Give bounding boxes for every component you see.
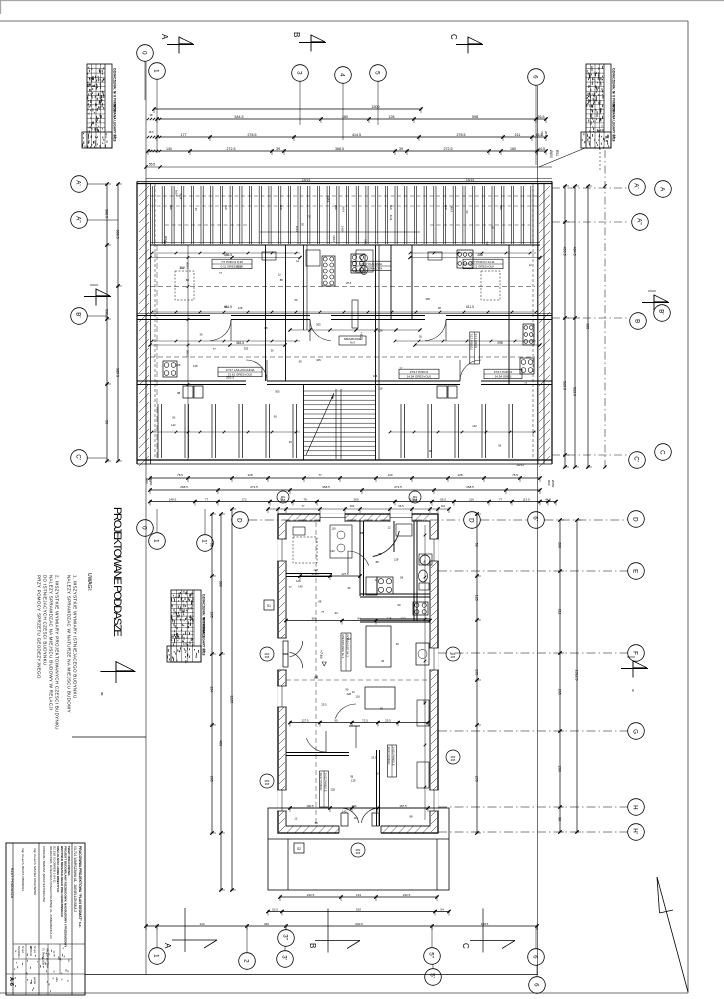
- svg-text:140: 140: [298, 585, 303, 589]
- svg-text:232.5: 232.5: [403, 893, 411, 897]
- svg-text:St-WA/14: St-WA/14: [29, 946, 32, 957]
- svg-text:414.5: 414.5: [352, 133, 361, 137]
- svg-text:6: 6: [532, 955, 539, 959]
- svg-text:14.54 GRES: 14.54 GRES: [495, 374, 512, 378]
- svg-text:211: 211: [515, 133, 521, 137]
- svg-text:12: 12: [388, 525, 391, 529]
- svg-text:177: 177: [181, 133, 187, 137]
- svg-text:A: A: [160, 34, 169, 40]
- svg-text:Ø15: Ø15: [451, 759, 456, 762]
- svg-text:R01: R01: [555, 150, 559, 156]
- svg-text:=: =: [98, 692, 104, 696]
- svg-text:9x14: 9x14: [178, 194, 182, 200]
- svg-text:295: 295: [475, 776, 479, 782]
- svg-text:14/14: 14/14: [516, 463, 524, 467]
- svg-text:525.5: 525.5: [226, 376, 234, 380]
- svg-text:A-6: A-6: [8, 977, 14, 986]
- svg-text:9x14: 9x14: [175, 190, 179, 196]
- svg-text:56: 56: [274, 414, 277, 418]
- svg-text:4: 4: [339, 73, 346, 77]
- svg-text:363.5: 363.5: [236, 341, 244, 345]
- svg-text:2: 2: [243, 959, 250, 963]
- svg-text:128: 128: [193, 364, 198, 368]
- svg-text:A': A': [633, 183, 640, 188]
- svg-text:14.54 GRES+OLK: 14.54 GRES+OLK: [407, 374, 432, 378]
- svg-text:90: 90: [299, 359, 302, 363]
- svg-text:A': A': [75, 180, 82, 185]
- svg-text:148.5: 148.5: [169, 497, 177, 501]
- svg-text:17/17 LAZ+KUCHNIA: 17/17 LAZ+KUCHNIA: [225, 368, 254, 372]
- svg-text:140: 140: [352, 804, 357, 808]
- svg-text:56: 56: [315, 675, 318, 679]
- svg-text:25.5: 25.5: [346, 281, 352, 285]
- svg-text:288: 288: [477, 253, 483, 257]
- svg-text:484.5: 484.5: [573, 247, 577, 256]
- svg-text:88: 88: [318, 600, 321, 604]
- svg-text:WARSZAWA, DZIELNICA PRAGA POLU: WARSZAWA, DZIELNICA PRAGA POLUDNIE UL. Z…: [49, 846, 53, 939]
- svg-text:180: 180: [510, 147, 516, 151]
- svg-text:116: 116: [441, 504, 446, 508]
- svg-text:0: 0: [141, 51, 148, 55]
- svg-text:116: 116: [373, 374, 378, 378]
- svg-text:Ø15: Ø15: [265, 656, 270, 659]
- svg-text:A: A: [163, 943, 172, 949]
- svg-text:NALEZY SPRAWDZAC W NATURZE NA: NALEZY SPRAWDZAC W NATURZE NA MIEJSCU BU…: [67, 575, 72, 713]
- svg-text:200: 200: [558, 542, 562, 548]
- svg-text:187.5: 187.5: [399, 804, 407, 808]
- svg-text:36: 36: [381, 659, 384, 663]
- svg-text:211: 211: [558, 609, 562, 615]
- svg-text:PRACOWNIA PROJEKTOWA "PLAN GEO: PRACOWNIA PROJEKTOWA "PLAN GEOMAT" s.c.: [78, 846, 82, 928]
- svg-text:79: 79: [303, 497, 307, 501]
- svg-text:36: 36: [347, 586, 350, 590]
- svg-text:305: 305: [316, 323, 321, 327]
- svg-text:598: 598: [472, 115, 478, 119]
- svg-text:190.5: 190.5: [306, 804, 314, 808]
- svg-text:586.5: 586.5: [224, 253, 232, 257]
- svg-text:1312.5: 1312.5: [575, 670, 579, 681]
- svg-text:14: 14: [114, 135, 118, 139]
- svg-text:56: 56: [225, 305, 228, 309]
- svg-text:Nr upr.: Nr upr.: [21, 946, 24, 954]
- svg-text:0: 0: [141, 526, 148, 530]
- svg-text:12: 12: [529, 263, 532, 267]
- svg-text:16.02 PANELE: 16.02 PANELE: [324, 773, 328, 792]
- svg-text:5/7 POKOJ 14.11: 5/7 POKOJ 14.11: [471, 260, 495, 264]
- svg-text:12: 12: [375, 578, 378, 582]
- svg-text:mgr inz.arch. BEATA OBROCKA: mgr inz.arch. BEATA OBROCKA: [21, 848, 25, 891]
- svg-text:260: 260: [350, 504, 355, 508]
- svg-text:520: 520: [356, 907, 361, 911]
- svg-text:75.5: 75.5: [512, 473, 518, 477]
- svg-text:144: 144: [199, 922, 204, 926]
- svg-text:26.5: 26.5: [538, 115, 545, 119]
- svg-text:58: 58: [350, 775, 353, 779]
- svg-text:D: D: [632, 517, 639, 522]
- svg-text:14/14: 14/14: [326, 196, 330, 203]
- svg-text:6': 6': [532, 516, 539, 521]
- svg-text:1: 1: [153, 954, 160, 958]
- svg-text:BUDYNKU MIESZKALNEGO WIELORODZ: BUDYNKU MIESZKALNEGO WIELORODZINNEGO: [60, 846, 64, 918]
- svg-text:30/17 POKOJ: 30/17 POKOJ: [319, 773, 323, 791]
- svg-text:A": A": [75, 216, 82, 222]
- svg-text:128: 128: [176, 363, 181, 367]
- svg-text:A": A": [636, 218, 643, 224]
- svg-text:544.5: 544.5: [235, 115, 244, 119]
- svg-text:116: 116: [331, 527, 336, 531]
- svg-text:116: 116: [378, 387, 383, 391]
- svg-text:77: 77: [302, 504, 305, 508]
- svg-text:9x9: 9x9: [279, 205, 283, 210]
- svg-text:128: 128: [296, 579, 301, 583]
- svg-text:3": 3": [282, 934, 289, 940]
- svg-text:3': 3': [281, 955, 288, 960]
- svg-text:88: 88: [315, 821, 318, 825]
- svg-text:523.5: 523.5: [563, 381, 567, 390]
- svg-text:2. WSZYSTKIE WYMIARY PROJEKTOW: 2. WSZYSTKIE WYMIARY PROJEKTOWANYCH CZES…: [55, 575, 60, 730]
- svg-text:44.5: 44.5: [545, 497, 551, 501]
- svg-text:14/14: 14/14: [341, 226, 345, 233]
- svg-text:R01: R01: [413, 496, 418, 499]
- svg-text:52.5: 52.5: [272, 907, 278, 911]
- svg-text:128: 128: [238, 306, 243, 310]
- svg-text:72.5: 72.5: [362, 718, 368, 722]
- svg-text:D: D: [236, 518, 243, 523]
- svg-text:14/14: 14/14: [450, 206, 454, 213]
- svg-text:MIESZKANIE Nr 4: MIESZKANIE Nr 4: [341, 635, 345, 659]
- svg-text:7/17 POKOJ: 7/17 POKOJ: [470, 334, 474, 351]
- svg-text:9x14: 9x14: [341, 206, 345, 212]
- svg-text:134: 134: [210, 686, 214, 692]
- svg-text:30/17 POKOJ: 30/17 POKOJ: [387, 747, 391, 765]
- svg-text:305: 305: [244, 346, 249, 350]
- svg-text:140: 140: [342, 809, 347, 813]
- svg-text:14/14: 14/14: [302, 178, 310, 182]
- svg-text:77: 77: [213, 347, 216, 351]
- svg-text:1. WSZYSTKIE WYMIARY ISTNIEJAC: 1. WSZYSTKIE WYMIARY ISTNIEJACEGO BUDYNK…: [73, 575, 78, 698]
- svg-text:C': C': [633, 456, 640, 462]
- svg-text:=: =: [629, 689, 635, 692]
- svg-text:205: 205: [210, 612, 214, 618]
- svg-text:9x9: 9x9: [499, 205, 503, 210]
- svg-text:C: C: [461, 943, 470, 949]
- svg-text:116: 116: [347, 637, 352, 641]
- svg-text:36: 36: [396, 642, 399, 646]
- svg-text:podpis: podpis: [33, 977, 36, 985]
- svg-text:5: 5: [374, 71, 381, 75]
- svg-text:608.5: 608.5: [116, 230, 120, 239]
- svg-text:459.5: 459.5: [563, 247, 567, 256]
- svg-text:C': C': [75, 454, 82, 460]
- svg-text:25.5: 25.5: [321, 702, 327, 706]
- svg-text:56: 56: [105, 420, 109, 424]
- svg-text:data: data: [55, 977, 58, 982]
- svg-text:298: 298: [497, 341, 503, 345]
- svg-text:340: 340: [264, 922, 269, 926]
- svg-text:128: 128: [351, 779, 356, 783]
- svg-text:C: C: [449, 34, 458, 40]
- svg-text:1: 1: [153, 69, 160, 73]
- svg-text:27/17 POKOJ: 27/17 POKOJ: [494, 370, 513, 374]
- svg-text:Ø15: Ø15: [356, 852, 361, 855]
- svg-text:205: 205: [210, 776, 214, 782]
- svg-text:128: 128: [457, 473, 462, 477]
- svg-text:585.5: 585.5: [116, 368, 120, 377]
- svg-text:mgr inz.arch. MACIEJ CICHOWSKI: mgr inz.arch. MACIEJ CICHOWSKI: [33, 848, 37, 896]
- svg-text:523.5: 523.5: [573, 387, 577, 396]
- svg-text:77: 77: [499, 497, 503, 501]
- svg-text:14/14: 14/14: [332, 235, 336, 242]
- svg-text:88: 88: [360, 531, 363, 535]
- svg-text:44.5: 44.5: [538, 147, 545, 151]
- svg-text:RZUT PODDASZA: RZUT PODDASZA: [10, 868, 14, 899]
- svg-text:14/14: 14/14: [363, 239, 367, 246]
- svg-text:75.5: 75.5: [177, 473, 183, 477]
- svg-text:6: 6: [533, 983, 540, 987]
- svg-text:14/14: 14/14: [163, 240, 167, 247]
- svg-text:125: 125: [475, 595, 479, 601]
- svg-text:25.5: 25.5: [236, 265, 242, 269]
- svg-text:B: B: [308, 943, 317, 948]
- svg-text:WA/100/14: WA/100/14: [17, 946, 20, 958]
- svg-text:F: F: [632, 651, 639, 655]
- svg-text:27/17 POKOJ: 27/17 POKOJ: [410, 370, 429, 374]
- svg-text:5': 5': [429, 973, 436, 978]
- svg-text:56: 56: [380, 707, 383, 711]
- svg-text:460: 460: [423, 560, 427, 565]
- svg-text:C: C: [659, 450, 666, 455]
- svg-text:77: 77: [219, 271, 222, 275]
- svg-text:368.5: 368.5: [322, 485, 330, 489]
- svg-text:113.5: 113.5: [522, 497, 530, 501]
- svg-text:140: 140: [330, 549, 335, 553]
- svg-text:278.5: 278.5: [248, 133, 257, 137]
- svg-text:380: 380: [423, 700, 427, 705]
- svg-text:127.5: 127.5: [341, 572, 349, 576]
- svg-text:Ø150: Ø150: [549, 150, 553, 158]
- svg-text:380: 380: [219, 581, 223, 587]
- svg-text:Nr upr.: Nr upr.: [33, 946, 36, 954]
- svg-text:77: 77: [399, 367, 402, 371]
- svg-text:Ø15: Ø15: [413, 500, 418, 502]
- svg-text:36: 36: [289, 440, 292, 444]
- svg-text:130: 130: [387, 473, 392, 477]
- svg-text:14: 14: [613, 135, 617, 139]
- svg-text:128: 128: [394, 557, 399, 561]
- svg-text:88: 88: [177, 391, 180, 395]
- svg-text:128: 128: [387, 617, 392, 621]
- svg-text:305: 305: [425, 297, 430, 301]
- svg-text:R03: R03: [145, 478, 149, 484]
- svg-text:268.5: 268.5: [180, 485, 188, 489]
- svg-text:56: 56: [498, 443, 501, 447]
- svg-text:ARCHITEKTURA: ARCHITEKTURA: [46, 948, 50, 968]
- svg-text:7/7 POKOJ 8.26: 7/7 POKOJ 8.26: [221, 260, 243, 264]
- svg-text:90: 90: [335, 611, 338, 615]
- svg-text:140: 140: [166, 147, 172, 151]
- svg-text:9x9: 9x9: [444, 205, 448, 210]
- svg-text:278.5: 278.5: [457, 133, 466, 137]
- svg-text:295: 295: [475, 669, 479, 675]
- svg-text:128: 128: [389, 115, 395, 119]
- svg-text:56.5: 56.5: [440, 497, 446, 501]
- svg-text:36: 36: [200, 333, 203, 337]
- svg-text:St. 5kwiec.13: St. 5kwiec.13: [42, 948, 46, 964]
- svg-text:STADIUM / BRANZA: ARCHITEKTONI: STADIUM / BRANZA: ARCHITEKTONICZNA: [42, 846, 46, 902]
- svg-text:R01: R01: [281, 496, 286, 499]
- svg-text:90: 90: [345, 687, 348, 691]
- svg-text:Ø15: Ø15: [281, 500, 286, 502]
- svg-text:116: 116: [354, 816, 359, 820]
- svg-text:132: 132: [400, 616, 405, 620]
- svg-text:Nr 5: Nr 5: [350, 341, 355, 345]
- svg-text:172: 172: [241, 497, 246, 501]
- svg-text:12: 12: [296, 259, 299, 263]
- svg-text:128: 128: [247, 473, 252, 477]
- svg-text:9x9: 9x9: [334, 205, 338, 210]
- svg-text:160: 160: [342, 115, 348, 119]
- svg-text:90: 90: [398, 603, 401, 607]
- svg-text:94: 94: [357, 616, 361, 620]
- svg-text:14/14: 14/14: [466, 178, 474, 182]
- svg-text:B: B: [634, 319, 641, 323]
- svg-text:460: 460: [219, 740, 223, 746]
- svg-text:172.5: 172.5: [311, 572, 319, 576]
- svg-text:H': H': [632, 828, 639, 834]
- svg-text:56: 56: [210, 543, 214, 547]
- svg-text:128: 128: [378, 328, 383, 332]
- svg-text:88: 88: [376, 560, 379, 564]
- svg-text:25.5: 25.5: [371, 755, 377, 759]
- svg-text:985: 985: [586, 323, 590, 329]
- svg-text:56: 56: [295, 298, 298, 302]
- svg-text:205: 205: [558, 689, 562, 695]
- svg-text:88: 88: [558, 817, 562, 821]
- svg-text:PROJEKTOWANE PODDASZE: PROJEKTOWANE PODDASZE: [111, 507, 123, 636]
- svg-text:+7.60: +7.60: [319, 650, 323, 659]
- svg-text:368.5: 368.5: [335, 147, 344, 151]
- svg-text:142: 142: [171, 423, 176, 427]
- svg-text:MIESZKANIE: MIESZKANIE: [344, 337, 361, 341]
- svg-text:DO ISTNIEJACYCH CZESCI BUDYNKU: DO ISTNIEJACYCH CZESCI BUDYNKU: [43, 575, 48, 666]
- svg-text:NALEZY SPRAWDZAC NA MIEJSCU BU: NALEZY SPRAWDZAC NA MIEJSCU BUDOWY W REL…: [49, 575, 54, 710]
- svg-text:268.5: 268.5: [466, 485, 474, 489]
- svg-text:9x9: 9x9: [169, 205, 173, 210]
- svg-text:134: 134: [356, 893, 361, 897]
- svg-text:Ø150: Ø150: [551, 480, 555, 488]
- svg-text:88: 88: [186, 278, 189, 282]
- svg-text:128: 128: [313, 568, 318, 572]
- svg-text:1: 1: [153, 539, 160, 543]
- svg-text:H: H: [632, 805, 639, 809]
- svg-text:D: D: [468, 518, 475, 523]
- svg-text:272.5: 272.5: [394, 485, 402, 489]
- svg-text:128: 128: [330, 788, 335, 792]
- svg-text:77: 77: [289, 585, 292, 589]
- svg-text:UWAGI:: UWAGI:: [86, 573, 92, 591]
- svg-text:77: 77: [321, 610, 324, 614]
- svg-text:305: 305: [316, 358, 321, 362]
- svg-text:116: 116: [469, 497, 474, 501]
- svg-text:Ø15: Ø15: [265, 783, 270, 786]
- svg-text:608.5: 608.5: [186, 262, 190, 269]
- svg-text:16.5: 16.5: [536, 133, 543, 137]
- svg-text:611.5: 611.5: [466, 305, 474, 309]
- svg-text:232.5: 232.5: [307, 893, 315, 897]
- svg-text:90: 90: [376, 772, 379, 776]
- svg-text:5": 5": [428, 952, 435, 958]
- svg-text:9x14: 9x14: [389, 215, 393, 221]
- svg-text:12: 12: [278, 273, 281, 277]
- svg-text:1225: 1225: [230, 695, 234, 703]
- svg-text:585.5: 585.5: [186, 350, 190, 357]
- svg-text:88: 88: [410, 815, 413, 819]
- svg-text:142: 142: [180, 266, 185, 270]
- svg-text:90: 90: [334, 718, 338, 722]
- svg-text:S1: S1: [267, 604, 271, 608]
- svg-text:E: E: [632, 569, 639, 573]
- svg-text:56.5: 56.5: [398, 504, 404, 508]
- svg-text:90: 90: [438, 306, 441, 310]
- svg-text:03-721 WARSZAWA UL. JAGIELLONS: 03-721 WARSZAWA UL. JAGIELLONSKA 2: [73, 846, 77, 912]
- svg-text:12: 12: [352, 690, 355, 694]
- svg-text:1500: 1500: [372, 105, 380, 109]
- svg-text:58: 58: [400, 575, 403, 579]
- svg-text:S2: S2: [297, 847, 301, 851]
- svg-text:272.5: 272.5: [227, 147, 236, 151]
- svg-text:39: 39: [276, 147, 280, 151]
- svg-text:Ø15: Ø15: [451, 656, 456, 659]
- svg-text:305: 305: [275, 390, 280, 394]
- svg-text:0.11 GRES+OLK: 0.11 GRES+OLK: [472, 264, 495, 268]
- svg-text:206: 206: [558, 766, 562, 772]
- svg-text:14: 14: [203, 649, 207, 653]
- svg-text:B: B: [292, 32, 301, 37]
- svg-text:388.5: 388.5: [105, 209, 109, 218]
- svg-text:272.5: 272.5: [250, 485, 258, 489]
- svg-text:39: 39: [399, 147, 403, 151]
- svg-text:G: G: [632, 729, 639, 734]
- svg-text:12: 12: [294, 817, 297, 821]
- svg-text:54: 54: [440, 907, 444, 911]
- svg-text:127.5: 127.5: [301, 718, 309, 722]
- svg-text:640.5: 640.5: [355, 922, 363, 926]
- svg-text:77: 77: [205, 497, 209, 501]
- svg-text:9x9: 9x9: [224, 205, 228, 210]
- svg-text:B': B': [658, 309, 665, 314]
- svg-text:3: 3: [296, 71, 303, 75]
- svg-text:116: 116: [356, 694, 361, 698]
- svg-text:9x14: 9x14: [295, 226, 299, 232]
- svg-text:56: 56: [475, 543, 479, 547]
- svg-text:9x9: 9x9: [389, 205, 393, 210]
- svg-text:6: 6: [532, 75, 539, 79]
- svg-text:PRZY POMOCY SPRZETU GEODEZYJNE: PRZY POMOCY SPRZETU GEODEZYJNEGO: [37, 575, 42, 679]
- svg-text:36: 36: [419, 335, 422, 339]
- svg-text:272.5: 272.5: [444, 147, 453, 151]
- svg-text:88: 88: [280, 278, 283, 282]
- svg-text:590.5: 590.5: [105, 309, 109, 318]
- svg-text:B': B': [75, 312, 82, 317]
- svg-text:56: 56: [378, 552, 381, 556]
- svg-text:14.01 PANELE: 14.01 PANELE: [392, 747, 396, 766]
- svg-text:188.5: 188.5: [481, 922, 489, 926]
- svg-text:90: 90: [172, 415, 175, 419]
- svg-text:25.5: 25.5: [385, 718, 391, 722]
- svg-text:1': 1': [201, 539, 208, 544]
- svg-text:Ø150: Ø150: [149, 478, 153, 486]
- svg-text:18.5: 18.5: [148, 130, 154, 134]
